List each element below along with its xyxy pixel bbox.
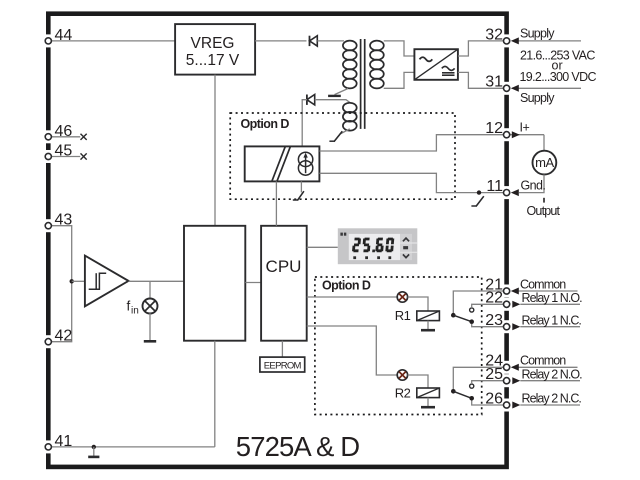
wire lamp R1 to coil R1 — [408, 297, 428, 311]
transformer primary winding 2 — [343, 103, 357, 131]
display down button — [403, 254, 409, 257]
terminal pin 21 — [485, 276, 509, 297]
terminal pin 43 — [45, 212, 72, 233]
switch contact below isolator — [293, 191, 304, 200]
wire pin 12 to mA meter — [543, 135, 545, 151]
relay 1 pivot contact — [451, 313, 456, 318]
terminal pin 24 — [485, 353, 509, 374]
svg-text:I+: I+ — [520, 121, 530, 135]
ground below coil R1 — [421, 321, 435, 331]
display up button — [403, 238, 409, 241]
ground below f_in lamp — [144, 313, 156, 341]
wire pin 41 ground rail — [50, 446, 215, 448]
terminal pin 11 — [486, 178, 509, 199]
wire CPU to display — [307, 246, 338, 248]
no-connect X mark pin 46 — [81, 134, 87, 140]
svg-text:Supply: Supply — [520, 27, 555, 41]
svg-text:VREG: VREG — [191, 35, 235, 52]
display status dots — [353, 256, 356, 259]
no-connect X mark pin 45 — [81, 153, 87, 159]
svg-text:mA: mA — [535, 155, 554, 170]
wire lamp R2 to coil R2 — [408, 375, 428, 388]
wire diode D1 to transformer primary — [317, 40, 344, 42]
wire diode D2 to isolator — [302, 100, 307, 147]
schmitt trigger comparator U2 — [85, 256, 129, 307]
lamp indicator for R1 — [397, 292, 407, 302]
transformer secondary winding — [370, 41, 384, 89]
svg-text:43: 43 — [55, 212, 73, 229]
wire isolator to pin 11 — [319, 173, 505, 192]
wire main block to CPU — [245, 282, 261, 284]
svg-text:CPU: CPU — [266, 257, 302, 276]
wire diode D2 to primary winding 2 — [315, 100, 352, 104]
svg-text:5...17 V: 5...17 V — [186, 52, 240, 69]
svg-text:41: 41 — [55, 433, 73, 450]
main converter block — [184, 226, 245, 341]
svg-text:25: 25 — [485, 366, 503, 383]
svg-text:11: 11 — [486, 178, 503, 195]
mA current meter — [533, 151, 557, 175]
relay 2 pivot contact — [451, 389, 456, 394]
f_in label — [127, 299, 139, 317]
svg-text:Option D: Option D — [241, 117, 290, 131]
relay 2 NO contact — [470, 384, 474, 388]
VREG block U1 — [175, 24, 255, 75]
wire drop to f_in lamp — [149, 281, 151, 299]
terminal pin 44 — [45, 27, 72, 48]
CPU block U3 — [261, 226, 307, 341]
display middle button — [403, 246, 408, 249]
outer device border frame — [48, 14, 506, 467]
wire relay 1 NC to pin 23 — [472, 324, 505, 327]
ground below coil R2 — [421, 398, 435, 408]
svg-text:R1: R1 — [395, 308, 411, 323]
svg-text:45: 45 — [55, 143, 73, 160]
wire secondary bottom to AC/DC converter — [384, 72, 415, 88]
svg-text:23: 23 — [485, 312, 503, 329]
wire isolator to pin 12 — [319, 135, 505, 151]
svg-text:in: in — [131, 306, 139, 317]
svg-text:f: f — [127, 299, 131, 314]
wire input bus to schmitt trigger — [72, 280, 85, 282]
junction node input bus — [70, 279, 74, 283]
svg-text:R2: R2 — [395, 385, 411, 400]
wire VREG to diode D1 — [255, 40, 306, 42]
svg-text:12: 12 — [485, 120, 503, 137]
diode D2 — [307, 95, 315, 105]
front display panel — [338, 228, 418, 264]
relay1 NC arrow out of pin 23 — [512, 323, 580, 330]
svg-text:19.2...300 VDC: 19.2...300 VDC — [520, 70, 597, 84]
transformer core — [361, 39, 365, 129]
wire isolator to CPU top — [275, 181, 277, 225]
wire relay 2 NO to pin 25 — [472, 381, 505, 384]
wire isolator chassis stub — [300, 181, 302, 192]
transformer primary winding 1 — [343, 41, 357, 89]
wire pin 44 to VREG — [50, 40, 175, 42]
wire VREG down to main block — [214, 75, 216, 226]
wire relay 1 NO to pin 22 — [472, 304, 505, 308]
terminal pin 46 — [45, 123, 72, 144]
wire CPU bottom to EEPROM — [281, 341, 283, 357]
return arrow into pin 11 — [511, 189, 519, 196]
Option D relay option dashed box — [315, 277, 482, 415]
svg-text:Relay 1 N.O.: Relay 1 N.O. — [522, 291, 583, 305]
ground symbol at pin 41 rail — [88, 447, 99, 457]
svg-text:Common: Common — [520, 277, 566, 291]
display reading 25.60 — [352, 238, 394, 253]
svg-text:Relay 1 N.C.: Relay 1 N.C. — [522, 313, 582, 327]
relay 1 NC contact — [469, 319, 474, 324]
svg-text:31: 31 — [485, 74, 503, 91]
terminal pin 23 — [485, 312, 509, 333]
EEPROM block U4 — [260, 357, 305, 372]
svg-text:Common: Common — [520, 354, 566, 368]
wire mA meter to pin 11 — [519, 175, 544, 193]
junction node on pin 11 wire — [477, 190, 481, 194]
common arrow into pin 24 — [511, 364, 578, 371]
relay 2 armature — [453, 391, 471, 398]
wire pin 45 stub — [50, 156, 80, 158]
svg-text:44: 44 — [55, 27, 73, 44]
common arrow into pin 21 — [511, 288, 578, 295]
relay 1 armature — [453, 315, 471, 322]
supply arrow into pin 31 — [511, 85, 581, 92]
output tick mark — [543, 198, 545, 203]
svg-text:42: 42 — [55, 328, 73, 345]
relay2 NC arrow out of pin 26 — [512, 402, 580, 409]
terminal pin 22 — [485, 290, 509, 311]
svg-text:Output: Output — [527, 204, 561, 218]
terminal pin 45 — [45, 143, 72, 164]
terminal pin 26 — [485, 390, 509, 411]
relay coil R2 — [417, 388, 440, 398]
svg-text:Relay 2 N.O.: Relay 2 N.O. — [522, 367, 583, 381]
primary 1 bottom tap wire — [335, 89, 349, 95]
terminal pin 32 — [485, 26, 509, 47]
lamp indicator for R2 — [397, 370, 407, 380]
relay1 NO arrow out of pin 22 — [512, 301, 580, 308]
diode D1 — [310, 36, 318, 46]
terminal pin 25 — [485, 366, 509, 387]
junction node on pin41 rail — [92, 445, 96, 449]
svg-text:Supply: Supply — [520, 91, 555, 105]
primary 2 bottom hook wire — [341, 129, 350, 134]
wire CPU to lamp R1 — [307, 296, 398, 298]
relay2 NO arrow out of pin 25 — [512, 377, 580, 384]
relay 1 NO contact — [470, 308, 474, 312]
supply arrow into pin 32 — [511, 37, 581, 44]
svg-text:EEPROM: EEPROM — [264, 361, 302, 372]
f_in frequency lamp indicator — [143, 299, 158, 314]
display PR logo mark — [340, 233, 346, 236]
relay coil R1 — [417, 311, 440, 321]
svg-text:Gnd.: Gnd. — [521, 178, 546, 192]
svg-text:26: 26 — [485, 390, 503, 407]
switch contact at primary 2 bottom — [329, 131, 342, 141]
wire secondary top to AC/DC converter — [384, 41, 415, 56]
svg-text:Option D: Option D — [322, 279, 371, 293]
wire pin 43 to input bus — [50, 226, 72, 342]
galvanic isolator block — [245, 146, 320, 181]
output arrow at pin 12 — [510, 131, 544, 138]
AC/DC power converter block — [414, 49, 458, 80]
wire AC/DC to pin 32 — [458, 41, 505, 56]
wire main block bottom to pin 41 rail — [214, 341, 216, 447]
terminal pin 42 — [45, 328, 72, 349]
svg-text:5725A & D: 5725A & D — [236, 431, 359, 462]
terminal pin 12 — [485, 120, 509, 141]
wire relay 2 NC to pin 26 — [472, 401, 505, 406]
svg-text:32: 32 — [485, 26, 503, 43]
primary 1 tap ground bar — [328, 95, 341, 97]
wire pin 24 common to relay 2 pivot — [453, 367, 505, 389]
terminal pin 41 — [45, 433, 72, 454]
wire schmitt output to main block — [129, 280, 185, 282]
wire CPU to lamp R2 — [307, 326, 398, 375]
wire pin 46 stub — [50, 136, 80, 138]
Option D analog output dashed box — [230, 113, 455, 199]
svg-text:Relay 2 N.C.: Relay 2 N.C. — [522, 391, 582, 405]
wire AC/DC to pin 31 — [458, 72, 505, 88]
wire pin 21 common to relay 1 pivot — [453, 291, 505, 313]
relay 2 NC contact — [469, 396, 474, 401]
svg-text:46: 46 — [55, 123, 73, 140]
terminal pin 31 — [485, 74, 509, 95]
svg-text:22: 22 — [485, 290, 503, 307]
switch contact at pin 11 wire — [471, 196, 483, 206]
